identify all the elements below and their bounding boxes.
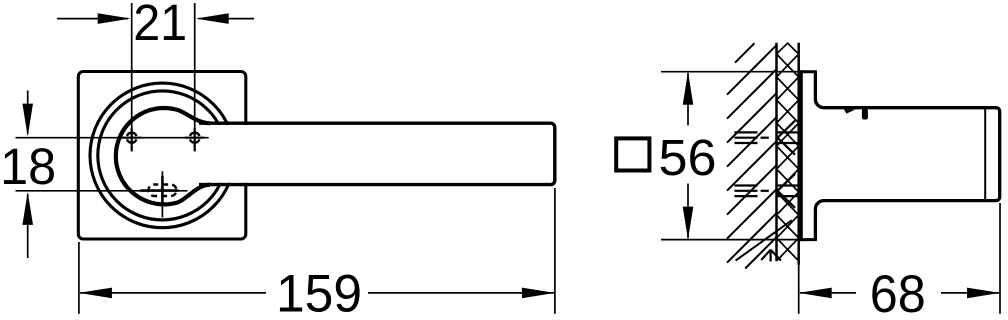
front view: second cover circle xyxy=(98,91,227,220)
front view: inner C ring (holder body) with tangent blends into bar xyxy=(116,108,210,204)
side view: tile layer zigzag hatch A xyxy=(777,43,799,261)
side view: wall bottom feet marks xyxy=(761,250,781,262)
dim 159: dimension line with outward arrows xyxy=(79,288,555,299)
side view: rosette top edge xyxy=(800,70,817,73)
side view: wall surface line 2 (tile face) xyxy=(797,43,800,265)
side view: lower anchor symbol (3 lines + dash + chevron) xyxy=(734,174,798,208)
side view: wall rough hatch (45 deg lines) xyxy=(727,43,792,268)
dim 56: square symbol xyxy=(616,138,649,170)
dim 21: dimension line left segment with arrow xyxy=(57,13,254,24)
front view: right screw hole xyxy=(185,128,205,151)
front view: square rosette plate xyxy=(78,72,246,240)
side view: rosette bottom edge xyxy=(800,238,817,241)
dim 18: vertical dimension line top segment with down arrow xyxy=(22,91,33,259)
set-screw center dot xyxy=(160,188,164,192)
svg-text:18: 18 xyxy=(0,138,56,195)
side view: release notch wedge on top edge xyxy=(844,109,855,113)
dim 68: right extension line xyxy=(999,203,1001,314)
front view: bar (holder arm) outline xyxy=(199,123,555,184)
bar interior mask (hides circle portions behind bar) xyxy=(196,125,552,183)
set-screw cross ticks xyxy=(140,176,178,204)
front view: left screw hole xyxy=(122,128,142,151)
svg-text:56: 56 xyxy=(659,129,717,186)
svg-text:68: 68 xyxy=(870,265,926,320)
dim 159: right extension line (below bar end) xyxy=(554,188,556,314)
side view: rosette left edge xyxy=(800,70,803,241)
dim 56: bottom extension line xyxy=(661,239,799,241)
dim 68: left extension line (wall face, thin continuation) xyxy=(798,265,800,314)
front view: upper hole centerline (horizontal) xyxy=(16,137,209,139)
left hole vertical centerline / extension of dim 21 xyxy=(131,3,133,151)
side view: small pin below top edge xyxy=(862,109,868,120)
dim 21: dimension line right segment with arrow xyxy=(199,18,255,20)
side view: end cap inner line xyxy=(984,109,986,199)
side view: wall surface line 1 xyxy=(775,43,778,261)
dim 18: vertical dimension line bottom segment with up arrow xyxy=(27,194,29,258)
dim 159: left extension line (below square) xyxy=(78,242,80,314)
dim 56: vertical dimension line with outward arrows xyxy=(683,72,694,240)
dim 68: dimension line with outward arrows xyxy=(799,288,1000,299)
svg-text:159: 159 xyxy=(276,265,362,320)
set-screw vertical centerline xyxy=(161,171,163,217)
side view: upper anchor symbol (3 lines + dash + chevron) xyxy=(734,121,798,155)
front view: hidden set-screw boss (dashed ellipse) xyxy=(148,185,176,197)
dim 56: top extension line xyxy=(661,71,799,73)
side view: body profile (rosette edge, cylinder, right end) xyxy=(815,72,999,240)
svg-text:21: 21 xyxy=(133,0,187,51)
side view: tile layer zigzag hatch B xyxy=(777,54,799,261)
front view: lower centerline (horizontal) xyxy=(16,190,188,192)
front view: outer cover circle xyxy=(90,83,235,228)
right hole vertical centerline / extension of dim 21 xyxy=(194,3,196,151)
